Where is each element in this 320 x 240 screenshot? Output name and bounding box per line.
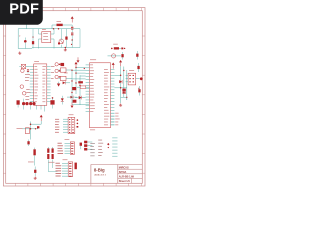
- title block row TITLE text: [119, 166, 129, 169]
- net label osc: [113, 43, 118, 46]
- resistor R2: [114, 47, 121, 49]
- IC2 ref text below: [90, 129, 95, 132]
- IC1 label: [34, 60, 39, 63]
- LED D5: [22, 99, 29, 110]
- IC1 right pin stubs: [47, 66, 51, 101]
- svg-text:LANACIUS 3: LANACIUS 3: [94, 173, 107, 176]
- capacitor C7 electrolytic: [33, 148, 35, 166]
- capacitor C8: [47, 147, 49, 159]
- wire main rail: [27, 28, 80, 30]
- title block subtitle LANACIUS: [94, 173, 107, 176]
- PDF badge overlay: [0, 0, 43, 25]
- IC2 label: [90, 58, 96, 61]
- net labels list left col: [90, 143, 95, 156]
- node junction F3: [75, 72, 76, 73]
- svg-text:SITNA: SITNA: [119, 171, 127, 174]
- wire stubs right list upper: [111, 113, 115, 125]
- node junction rail B: [58, 28, 60, 30]
- svg-text:PDF: PDF: [9, 2, 39, 18]
- connector J4 stubs: [63, 119, 68, 132]
- power flag P8 down: [71, 103, 74, 109]
- net label H: [17, 127, 23, 130]
- svg-text:Sheet 1/1: Sheet 1/1: [119, 180, 131, 183]
- connector J2 stubs: [62, 163, 68, 176]
- net labels right of IC2 upper: [115, 113, 120, 125]
- capacitor C3: [71, 33, 73, 40]
- connector J4 body: [68, 117, 75, 133]
- wire right column x123: [123, 67, 125, 98]
- wire branch G88: [114, 87, 126, 89]
- node junction G2: [120, 87, 122, 89]
- connector J2 pads: [69, 163, 72, 177]
- capacitor C9: [52, 147, 54, 159]
- node junction F5: [75, 82, 76, 83]
- node junction F1: [75, 67, 76, 68]
- resistor R8: [73, 100, 77, 103]
- transistor Q8: [20, 85, 24, 89]
- wire q1 connections: [54, 29, 62, 49]
- crystal Y1: [19, 64, 30, 68]
- node junction F6: [71, 92, 72, 93]
- sheet frame outer border: [3, 8, 145, 186]
- connector J1 body: [65, 139, 75, 154]
- power flag P5: [119, 60, 122, 66]
- diode D11: [61, 96, 64, 105]
- diode D8: [67, 96, 77, 99]
- transistor Q6: [55, 75, 60, 78]
- resistor R3: [17, 100, 20, 107]
- power flag P6: [40, 115, 43, 121]
- capacitor C2: [71, 25, 73, 32]
- connector J2 body: [63, 159, 73, 176]
- wire F bottom: [72, 104, 89, 106]
- resistor R12: [34, 167, 36, 177]
- diode D10: [119, 80, 122, 84]
- connector J3 stubs: [87, 142, 92, 149]
- net label 2: [19, 36, 21, 38]
- resistor R10: [122, 89, 125, 94]
- LED D6: [29, 102, 36, 110]
- connector J4 labels: [55, 119, 59, 133]
- wire bottom rail right: [32, 29, 80, 48]
- LED D2 indicator: [24, 38, 27, 49]
- node junction rail A: [53, 28, 55, 30]
- resistor R7: [77, 86, 90, 89]
- resistor R13: [75, 163, 77, 170]
- diode D12 down: [57, 82, 60, 87]
- resistor R11: [27, 140, 29, 147]
- node junction H3: [35, 128, 36, 129]
- title block row SHEET text: [119, 180, 131, 183]
- connector J1 labels: [58, 143, 64, 154]
- transistor Q5: [55, 69, 60, 72]
- capacitor C6 electrolytic: [50, 97, 54, 108]
- transistor Q2: [25, 128, 29, 134]
- component E1: [61, 63, 65, 66]
- node junction rail C: [71, 44, 72, 45]
- svg-text:ALR-BB 1.69: ALR-BB 1.69: [119, 176, 135, 179]
- wire bus left of IC2 x80: [79, 75, 81, 105]
- component J4c: [77, 126, 79, 128]
- connector J4 pads: [69, 119, 74, 133]
- node junction B1: [111, 48, 113, 50]
- transistor Q9: [22, 92, 26, 96]
- IC2 body: [90, 63, 111, 128]
- title block outline: [91, 165, 142, 184]
- node junction F9: [84, 68, 85, 69]
- wire mid vert: [32, 29, 34, 37]
- connector J2 labels: [56, 163, 62, 177]
- component B2: [121, 48, 125, 50]
- wire right column x120: [120, 66, 122, 103]
- title block project name ALFBig: [94, 167, 105, 172]
- node junction G1: [120, 75, 122, 77]
- node big red right: [140, 77, 143, 80]
- capacitor C5: [27, 69, 29, 73]
- node junction F7: [79, 85, 80, 86]
- sheet frame inner border: [6, 11, 143, 184]
- IC1 bottom wires: [37, 105, 45, 111]
- node junction K1: [108, 147, 109, 148]
- wire G bottom: [121, 97, 127, 100]
- ground GND3: [119, 104, 122, 107]
- node junction G2b: [123, 92, 124, 93]
- wire bus left of IC2 x72: [71, 70, 73, 103]
- wire vert x26: [26, 23, 28, 29]
- resistor R6: [72, 87, 76, 90]
- wire branch G75: [114, 74, 120, 76]
- wire bottom rail left: [18, 48, 32, 50]
- net specks right of IC1: [51, 66, 55, 79]
- wire I joint: [48, 160, 57, 172]
- IC2 right pin names: [104, 69, 109, 125]
- connector J1 pads: [71, 143, 73, 154]
- power flag VCC P1: [71, 16, 74, 22]
- node junction F2: [71, 70, 72, 71]
- transistor Q7: [21, 69, 25, 73]
- net label I1: [28, 161, 34, 164]
- wire stubs list right: [112, 138, 117, 156]
- resistor R1 vertical: [32, 36, 34, 48]
- IC1 body: [34, 64, 47, 105]
- wire left drop: [18, 29, 26, 49]
- node diamond: [107, 143, 109, 145]
- power flag VDD P2: [77, 57, 80, 63]
- IC1 left pin names: [34, 66, 38, 102]
- connector J3 body: [84, 141, 87, 151]
- IC2 left pin stubs: [86, 65, 90, 112]
- frame column ticks bottom: [15, 183, 141, 186]
- ground GND2: [64, 48, 67, 51]
- capacitor C1: [65, 29, 67, 48]
- IC1 right pin names: [42, 66, 46, 102]
- resistor R4: [58, 68, 72, 73]
- net labels list mid col: [98, 140, 103, 156]
- node junction C3 out: [71, 39, 73, 41]
- diode D9: [75, 96, 86, 100]
- power flag P7: [75, 62, 78, 68]
- component K1: [80, 143, 82, 150]
- IC1 left pin stubs: [30, 66, 34, 101]
- IC2 left pin names: [90, 65, 95, 113]
- wire branch F rows: [72, 68, 86, 79]
- diode D7: [63, 81, 70, 84]
- transistor Q1: [59, 39, 64, 44]
- node junction bottom: [65, 47, 67, 49]
- resistor R15: [136, 51, 138, 60]
- transistor Q4: [55, 63, 60, 66]
- component small H4: [37, 126, 39, 128]
- net label I2: [49, 161, 55, 164]
- wire H vert: [30, 122, 32, 140]
- wire top input rail: [52, 25, 72, 29]
- node junction H1: [30, 123, 32, 125]
- capacitor C4: [121, 52, 123, 60]
- wire regulator left drop: [38, 29, 40, 49]
- title block row DOC text: [119, 176, 135, 179]
- node junction J4a: [77, 119, 79, 121]
- component D3 small: [58, 42, 63, 44]
- resistor R5: [58, 76, 72, 80]
- node junction H2: [30, 128, 32, 130]
- svg-text:8-Big: 8-Big: [94, 167, 105, 172]
- resistor R9: [138, 86, 140, 96]
- node junction F4: [71, 80, 72, 81]
- wire H top: [31, 121, 42, 124]
- connector J1 stubs: [65, 143, 71, 153]
- voltage regulator U1: [39, 29, 55, 42]
- connector J4 title: [69, 113, 74, 116]
- wire right column x126: [126, 70, 128, 100]
- frame row ticks left: [3, 36, 5, 173]
- title block row DATE text: [119, 171, 127, 174]
- svg-text:MIRCUS: MIRCUS: [119, 166, 129, 169]
- transistor Q3: [112, 54, 116, 58]
- component F8: [78, 81, 83, 83]
- frame row ticks right: [142, 36, 145, 173]
- IC2 right pin stubs: [111, 69, 115, 124]
- fuse F1: [57, 21, 63, 26]
- node junction G3: [126, 97, 127, 98]
- IC1 left net labels: [25, 74, 30, 100]
- node junction J4b: [77, 123, 79, 125]
- resistor R14: [137, 63, 139, 72]
- frame column ticks top: [15, 8, 141, 11]
- connector S1: [126, 70, 140, 85]
- ground GND1: [18, 52, 21, 55]
- wire osc link: [108, 55, 121, 57]
- node junction G1b: [123, 70, 124, 71]
- power arrow P4: [112, 63, 115, 69]
- ground GND4: [34, 177, 37, 180]
- wire bus left of IC2 x76: [75, 68, 77, 94]
- wire H horiz: [22, 128, 38, 130]
